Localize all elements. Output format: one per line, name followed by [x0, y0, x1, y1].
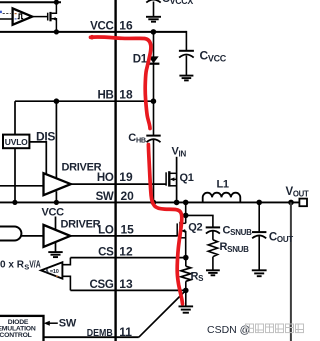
svg-text:12: 12 — [119, 244, 133, 258]
node HB junction — [151, 98, 157, 104]
node VCC-D1 junction — [151, 29, 157, 35]
wire LO rail — [70, 235, 177, 237]
svg-text:L1: L1 — [217, 179, 229, 191]
wire LO driver to ground — [55, 242, 57, 252]
svg-text:VCC: VCC — [90, 20, 113, 32]
svg-text:DRIVER: DRIVER — [61, 218, 101, 230]
op-amp A=10 — [41, 262, 62, 278]
gate pill input — [0, 227, 21, 241]
capacitor CSNUB — [206, 226, 220, 228]
wire amp input CSG — [62, 276, 70, 290]
op-amp HO driver — [44, 173, 71, 195]
wire HO rail — [71, 183, 166, 185]
resistor RSNUB — [212, 231, 214, 239]
svg-text:CS: CS — [98, 246, 114, 258]
wire SW rail — [0, 201, 299, 203]
op-amp U1 vcc-reg comparator — [13, 8, 33, 24]
op-amp LO driver — [44, 225, 71, 247]
diode D1 — [148, 56, 158, 63]
wire VCC down to D1 — [153, 32, 155, 101]
wire CSG to ground — [185, 290, 187, 306]
wire UVLO to SW — [14, 148, 16, 202]
svg-text:Q1: Q1 — [180, 172, 194, 184]
ground top — [146, 17, 161, 22]
wire HO driver to SW — [55, 191, 57, 202]
capacitor COUT — [258, 202, 260, 231]
wire comparator plus input dashed — [3, 13, 11, 15]
capacitor CHB — [153, 101, 155, 135]
ground CVCC — [179, 76, 193, 81]
wire VCC to LO driver — [55, 217, 57, 231]
transistor Q1 — [166, 157, 177, 203]
wire CVCC to ground — [185, 56, 187, 76]
svg-text:HB: HB — [97, 90, 113, 102]
wire to snubber — [186, 215, 213, 226]
node blue reference mark — [0, 11, 2, 13]
wire top rail — [0, 1, 61, 3]
svg-text:V/A: V/A — [29, 259, 41, 271]
node HB driver junction — [54, 98, 60, 104]
capacitor CVCCX (cut off at top) — [146, 0, 160, 3]
wire HB rail — [15, 100, 154, 102]
resistor RS — [185, 258, 187, 267]
box diode emulation control — [0, 316, 44, 341]
transistor vcc-reg pass FET — [48, 2, 57, 32]
node CS junction — [183, 255, 189, 261]
wire comparator minus input — [0, 18, 13, 20]
wire comparator output to gate — [32, 16, 47, 18]
wire SW to Q2 — [185, 202, 187, 215]
svg-text:Q2: Q2 — [188, 222, 202, 234]
node CSG junction — [183, 288, 189, 294]
ground LO driver — [48, 252, 62, 257]
svg-text:D1: D1 — [133, 54, 148, 66]
svg-text:HO: HO — [97, 172, 114, 184]
wire CS rail — [70, 257, 185, 259]
svg-text:18: 18 — [119, 88, 133, 102]
node VCC junction left — [54, 29, 59, 34]
wire HO driver input — [0, 185, 44, 187]
transistor Q2 — [177, 215, 186, 257]
label SW arrow — [46, 322, 58, 324]
ground RSNUB — [206, 270, 220, 275]
wire CVCCX to ground — [153, 2, 155, 17]
svg-text:SW: SW — [59, 318, 77, 330]
svg-text:CONTROL: CONTROL — [0, 332, 32, 339]
wire CSG rail — [70, 289, 185, 291]
svg-text:0 x R: 0 x R — [0, 259, 24, 271]
UVLO box — [3, 135, 29, 149]
svg-text:19: 19 — [119, 170, 133, 184]
IC boundary — [114, 0, 116, 341]
wire VCC to CVCC — [185, 31, 187, 51]
wire DEMB diagonal — [139, 290, 186, 337]
wire VCC rail — [0, 31, 186, 33]
svg-text:VCC: VCC — [42, 207, 65, 219]
svg-text:CSG: CSG — [89, 279, 113, 291]
ground RS — [179, 306, 194, 312]
svg-text:LO: LO — [98, 225, 114, 237]
red annotation path — [90, 35, 183, 304]
svg-text:16: 16 — [119, 18, 133, 32]
node SW junctions — [12, 200, 17, 205]
wire DEMB rail — [44, 336, 139, 338]
svg-text:DRIVER: DRIVER — [62, 162, 102, 174]
wire amp input CS — [62, 258, 70, 265]
wire DIS — [29, 142, 46, 176]
wire VOUT feedback down — [290, 202, 292, 341]
svg-text:CSDN @: CSDN @ — [207, 324, 250, 336]
terminal VOUT — [299, 199, 307, 207]
svg-text:20: 20 — [121, 189, 135, 203]
wire pill to LO driver — [21, 235, 43, 237]
capacitor CVCC — [179, 50, 194, 52]
svg-text:11: 11 — [119, 325, 132, 339]
ground COUT — [252, 270, 267, 276]
svg-text:SW: SW — [96, 191, 114, 203]
node Q2-snubber junction — [183, 213, 189, 219]
svg-text:A =10: A =10 — [45, 269, 59, 275]
wire HB to driver — [55, 101, 57, 180]
wire HB to UVLO — [14, 101, 16, 134]
svg-text:15: 15 — [121, 223, 135, 237]
svg-text:DEMB: DEMB — [87, 328, 113, 339]
svg-text:UVLO: UVLO — [5, 137, 28, 147]
svg-text:13: 13 — [119, 277, 133, 291]
node top rail junction — [54, 0, 59, 5]
